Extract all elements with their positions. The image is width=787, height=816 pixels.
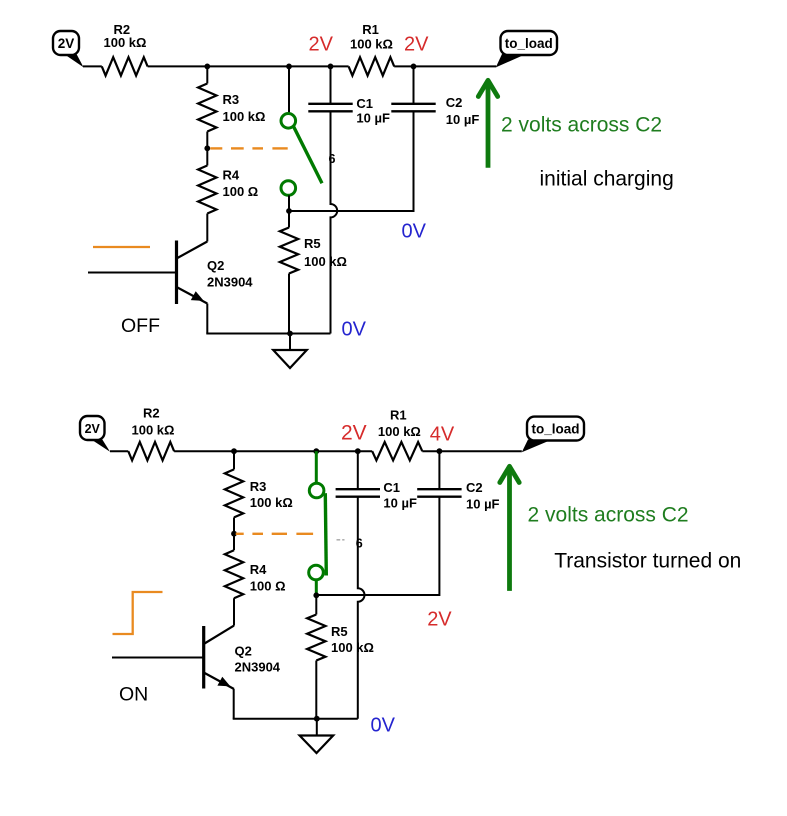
svg-text:R4: R4 bbox=[250, 562, 267, 577]
svg-text:R4: R4 bbox=[223, 168, 240, 183]
svg-text:to_load: to_load bbox=[505, 36, 553, 51]
wire base lead (top circuit) bbox=[88, 272, 177, 274]
wire switch top lead green (bottom circuit) bbox=[315, 451, 318, 484]
junction node on top rail at C1 (top circuit) bbox=[328, 64, 334, 70]
svg-text:2 volts across C2: 2 volts across C2 bbox=[501, 114, 662, 137]
svg-text:R1: R1 bbox=[362, 22, 379, 37]
switch J1 closed (bottom circuit) bbox=[309, 483, 327, 580]
base input waveform OFF flat low line (top circuit) bbox=[93, 246, 150, 248]
resistor R1 (top circuit) bbox=[349, 22, 395, 76]
svg-text:10 µF: 10 µF bbox=[446, 112, 480, 127]
wire top rail left segment (top circuit) bbox=[83, 65, 102, 67]
wire C1 top lead (top circuit) bbox=[330, 66, 332, 103]
capacitor C1 (top circuit) bbox=[308, 96, 390, 126]
junction node on top rail at C2 (top circuit) bbox=[411, 64, 417, 70]
resistor R4 (top circuit) bbox=[198, 166, 258, 214]
wire C1 bottom lead with hop over middle rail (bottom circuit) bbox=[358, 497, 365, 719]
resistor R5 (top circuit) bbox=[280, 228, 347, 274]
wire C2 top lead (bottom circuit) bbox=[438, 451, 440, 489]
svg-text:10 µF: 10 µF bbox=[383, 496, 417, 511]
wire R3 bottom lead (bottom circuit) bbox=[233, 517, 235, 533]
resistor R2 (bottom circuit) bbox=[128, 406, 174, 461]
wire R5 bottom lead (top circuit) bbox=[288, 274, 290, 334]
wire emitter lead (bottom circuit) bbox=[233, 689, 235, 719]
voltage annotation 2V red left (bottom circuit) bbox=[341, 422, 367, 445]
wire R5 top lead (top circuit) bbox=[288, 211, 290, 228]
svg-text:10 µF: 10 µF bbox=[356, 111, 390, 126]
wire R4 bottom lead / collector wire (top circuit) bbox=[206, 214, 208, 242]
svg-text:2V: 2V bbox=[404, 34, 429, 56]
wire C1 top lead (bottom circuit) bbox=[357, 451, 359, 489]
svg-text:2N3904: 2N3904 bbox=[235, 660, 281, 675]
resistor R3 (top circuit) bbox=[198, 84, 265, 132]
svg-text:0V: 0V bbox=[402, 221, 427, 243]
resistor R2 (top circuit) bbox=[102, 22, 148, 76]
wire R5 bottom lead (bottom circuit) bbox=[315, 661, 317, 719]
svg-text:Q2: Q2 bbox=[235, 644, 252, 659]
capacitor C2 (bottom circuit) bbox=[417, 480, 499, 512]
voltage source callout box 2V (bottom circuit) bbox=[80, 416, 110, 452]
svg-text:Transistor turned on: Transistor turned on bbox=[554, 550, 741, 573]
svg-text:R3: R3 bbox=[250, 479, 267, 494]
svg-text:2V: 2V bbox=[85, 422, 101, 436]
output callout box to_load (bottom circuit) bbox=[522, 417, 584, 453]
svg-text:100 kΩ: 100 kΩ bbox=[104, 35, 147, 50]
svg-text:R3: R3 bbox=[223, 92, 240, 107]
net label 6 (top circuit) bbox=[329, 152, 336, 166]
label OFF (top circuit) bbox=[121, 315, 160, 337]
wire middle rail from switch to C2 (top circuit) bbox=[289, 210, 414, 212]
annotation arrow green (bottom circuit) bbox=[500, 466, 519, 591]
svg-text:2V: 2V bbox=[309, 34, 334, 56]
annotation text Transistor turned on (bottom circuit) bbox=[554, 550, 741, 573]
svg-text:100 kΩ: 100 kΩ bbox=[350, 36, 393, 51]
svg-text:100 kΩ: 100 kΩ bbox=[378, 424, 421, 439]
svg-text:100 Ω: 100 Ω bbox=[223, 184, 259, 199]
annotation arrow green (top circuit) bbox=[478, 80, 497, 168]
resistor R5 (bottom circuit) bbox=[307, 615, 374, 661]
wire R3 top lead (bottom circuit) bbox=[233, 451, 235, 469]
junction node switch-R5 (top circuit) bbox=[286, 208, 292, 214]
wire switch top lead (top circuit) bbox=[288, 66, 290, 113]
junction node R3-R4 (top circuit) bbox=[204, 145, 210, 151]
wire top rail right segment (bottom circuit) bbox=[422, 450, 522, 452]
wire base lead (bottom circuit) bbox=[112, 657, 204, 659]
resistor R4 (bottom circuit) bbox=[225, 550, 286, 598]
wire R3 bottom lead (top circuit) bbox=[206, 132, 208, 149]
wire top rail right segment (top circuit) bbox=[394, 65, 496, 67]
svg-text:R2: R2 bbox=[143, 406, 160, 421]
junction node on top rail at C1 (bottom circuit) bbox=[355, 448, 361, 454]
wire R5 top lead (bottom circuit) bbox=[315, 595, 317, 614]
wire C2 bottom lead (bottom circuit) bbox=[438, 497, 440, 596]
svg-text:Q2: Q2 bbox=[207, 258, 224, 273]
wire top rail left segment (bottom circuit) bbox=[110, 450, 128, 452]
junction node at ground (top circuit) bbox=[287, 331, 293, 337]
transistor Q2 (bottom circuit) bbox=[204, 626, 281, 689]
svg-text:R1: R1 bbox=[390, 408, 407, 423]
svg-text:2 volts across C2: 2 volts across C2 bbox=[528, 504, 689, 527]
svg-text:2V: 2V bbox=[58, 36, 75, 51]
junction node on top rail at C2 (bottom circuit) bbox=[437, 448, 443, 454]
voltage annotation 2V red right (top circuit) bbox=[404, 34, 429, 56]
svg-text:C2: C2 bbox=[466, 480, 483, 495]
junction node on top rail at R3 (bottom circuit) bbox=[231, 448, 237, 454]
wire emitter lead (top circuit) bbox=[206, 304, 208, 334]
wire R4 bottom lead / collector wire (bottom circuit) bbox=[233, 598, 235, 625]
junction node on top rail at R3 (top circuit) bbox=[204, 64, 210, 70]
svg-text:4V: 4V bbox=[430, 424, 455, 446]
wire R4 top lead (top circuit) bbox=[206, 148, 208, 165]
svg-text:100 kΩ: 100 kΩ bbox=[223, 109, 266, 124]
svg-text:C1: C1 bbox=[356, 96, 373, 111]
svg-text:2V: 2V bbox=[341, 422, 367, 445]
svg-text:2N3904: 2N3904 bbox=[207, 275, 253, 290]
svg-text:0V: 0V bbox=[342, 319, 367, 341]
wire R3 top lead (top circuit) bbox=[206, 66, 208, 83]
wire top rail middle segment (bottom circuit) bbox=[174, 450, 372, 452]
svg-text:100 kΩ: 100 kΩ bbox=[250, 495, 293, 510]
svg-text:100 kΩ: 100 kΩ bbox=[331, 640, 374, 655]
svg-text:10 µF: 10 µF bbox=[466, 497, 500, 512]
svg-text:ON: ON bbox=[119, 684, 148, 706]
svg-text:100 kΩ: 100 kΩ bbox=[132, 423, 175, 438]
wire top rail middle segment (top circuit) bbox=[148, 65, 349, 67]
dashed annotation line at R3-R4 node (bottom circuit) bbox=[236, 533, 313, 535]
resistor R1 (bottom circuit) bbox=[372, 408, 422, 461]
faint net artifact marks (bottom circuit) bbox=[337, 539, 345, 541]
svg-text:2V: 2V bbox=[427, 608, 452, 630]
svg-text:C2: C2 bbox=[446, 95, 463, 110]
capacitor C2 (top circuit) bbox=[391, 95, 479, 127]
voltage annotation 2V red left (top circuit) bbox=[309, 34, 334, 56]
junction node on top rail at switch branch (bottom circuit) bbox=[313, 448, 319, 454]
junction node switch-R5 (bottom circuit) bbox=[313, 592, 319, 598]
svg-text:R5: R5 bbox=[331, 624, 348, 639]
wire C2 bottom lead (top circuit) bbox=[413, 111, 415, 212]
junction node R3-R4 (bottom circuit) bbox=[231, 531, 237, 537]
ground symbol (bottom circuit) bbox=[300, 719, 334, 753]
wire R4 top lead (bottom circuit) bbox=[233, 534, 235, 551]
wire middle rail from switch to C2 (bottom circuit) bbox=[316, 594, 439, 596]
output callout box to_load (top circuit) bbox=[496, 31, 557, 67]
base input step waveform ON (bottom circuit) bbox=[113, 592, 163, 634]
annotation text 2 volts across C2 (bottom circuit) bbox=[528, 504, 689, 527]
switch J1 open (top circuit) bbox=[281, 114, 322, 196]
annotation text 2 volts across C2 (top circuit) bbox=[501, 114, 662, 137]
svg-text:OFF: OFF bbox=[121, 315, 160, 337]
svg-text:to_load: to_load bbox=[531, 422, 579, 437]
voltage annotation 2V red middle (bottom circuit) bbox=[427, 608, 452, 630]
transistor Q2 (top circuit) bbox=[177, 241, 254, 305]
svg-text:C1: C1 bbox=[383, 480, 400, 495]
annotation text initial charging (top circuit) bbox=[540, 168, 674, 191]
svg-text:0V: 0V bbox=[371, 715, 396, 737]
junction node at ground (bottom circuit) bbox=[314, 716, 320, 722]
junction node on top rail at switch branch (top circuit) bbox=[286, 64, 292, 70]
wire switch bottom lead (top circuit) bbox=[288, 195, 290, 211]
voltage annotation 0V blue middle (top circuit) bbox=[402, 221, 427, 243]
voltage annotation 0V blue ground (bottom circuit) bbox=[371, 715, 396, 737]
voltage annotation 0V blue ground (top circuit) bbox=[342, 319, 367, 341]
ground symbol (top circuit) bbox=[273, 334, 307, 369]
svg-text:R5: R5 bbox=[304, 236, 321, 251]
svg-text:100 kΩ: 100 kΩ bbox=[304, 254, 347, 269]
voltage source callout box 2V (top circuit) bbox=[53, 31, 84, 67]
svg-text:100 Ω: 100 Ω bbox=[250, 579, 286, 594]
net label 6 partially hidden (bottom circuit) bbox=[356, 537, 363, 551]
wire ground rail (top circuit) bbox=[206, 333, 330, 335]
wire C2 top lead (top circuit) bbox=[413, 66, 415, 103]
wire switch bottom lead green (bottom circuit) bbox=[315, 580, 318, 596]
dashed annotation line at R3-R4 node (top circuit) bbox=[210, 147, 287, 149]
wire C1 bottom lead with hop over middle rail (top circuit) bbox=[331, 111, 338, 333]
label ON (bottom circuit) bbox=[119, 684, 148, 706]
capacitor C1 (bottom circuit) bbox=[336, 480, 417, 510]
voltage annotation 4V red right (bottom circuit) bbox=[430, 424, 455, 446]
wire ground rail (bottom circuit) bbox=[233, 718, 358, 720]
svg-text:initial charging: initial charging bbox=[540, 168, 674, 191]
resistor R3 (bottom circuit) bbox=[225, 469, 293, 517]
